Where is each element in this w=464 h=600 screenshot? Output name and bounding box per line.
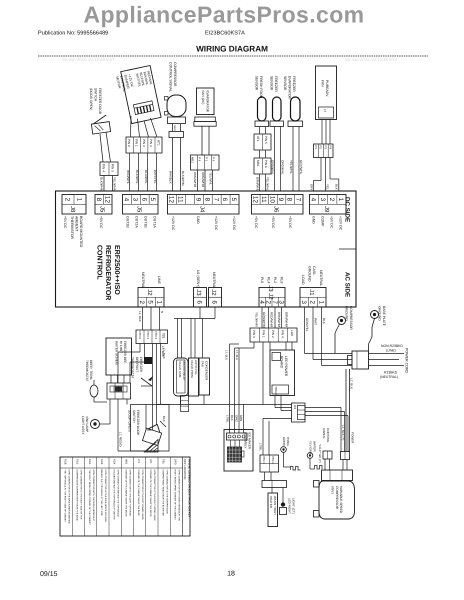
wire TB1 leg 2: [130, 344, 145, 384]
light assembly label: [81, 416, 89, 435]
svg-text:YEL: YEL: [326, 184, 330, 190]
svg-text:5: 5: [149, 198, 156, 202]
svg-text:NEUTRAL: NEUTRAL: [319, 270, 323, 286]
svg-text:PIN 4: PIN 4: [281, 330, 285, 338]
svg-text:+5V DC: +5V DC: [288, 216, 292, 229]
svg-text:MB1: MB1: [256, 160, 260, 167]
svg-text:FREEZER DOOR: FREEZER DOOR: [98, 88, 102, 115]
connector MB door switch: [100, 162, 118, 176]
svg-text:ORG/WHM: ORG/WHM: [201, 172, 205, 188]
svg-text:L7, BLK (T): L7, BLK (T): [341, 425, 345, 440]
svg-text:+12V DC: +12V DC: [171, 216, 175, 231]
svg-text:BASE PLATE: BASE PLATE: [382, 306, 386, 327]
svg-text:RG8: RG8: [63, 459, 66, 465]
svg-text:ORG/WHM: ORG/WHM: [193, 172, 197, 188]
title WIRING DIAGRAM: [196, 45, 268, 54]
svg-text:PIN 3: PIN 3: [252, 330, 256, 338]
svg-text:POWER CORD: POWER CORD: [405, 348, 409, 374]
svg-text:+5V DC: +5V DC: [254, 216, 258, 229]
defrost heater assembly box: [106, 338, 132, 375]
svg-text:AppliancePartsPros.com: AppliancePartsPros.com: [83, 2, 364, 28]
wires MB connector to J8: [100, 176, 117, 192]
wires connector to bar: [265, 472, 272, 481]
svg-text:TRIAC: TRIAC: [274, 387, 278, 396]
wires freezer evap sensor to J6: [289, 127, 303, 192]
svg-text:SIGNAL: SIGNAL: [322, 428, 326, 439]
compressor mount tabs: [314, 481, 320, 518]
svg-text:LED NIGHT: LED NIGHT: [288, 498, 292, 514]
svg-text:EVAPORATOR: EVAPORATOR: [288, 76, 292, 100]
svg-text:PIN 1: PIN 1: [262, 330, 266, 338]
svg-text:FRESH FOOD: FRESH FOOD: [259, 76, 263, 99]
svg-text:LT1: LT1: [137, 459, 140, 464]
connector J5 mid: [123, 195, 159, 215]
drain heater resistive element: [291, 467, 301, 471]
wire TB1 leg 4: [161, 344, 166, 405]
small strip connector below valves: [181, 396, 189, 412]
svg-text:THE TOP GRILLE AT THE RIGHT SI: THE TOP GRILLE AT THE RIGHT SIDE OF CABI…: [63, 470, 66, 523]
svg-text:RIGHT REAR UPPER CORNER OF THE: RIGHT REAR UPPER CORNER OF THE CABINET: [174, 470, 177, 521]
svg-text:THERMOSTAT: THERMOSTAT: [85, 360, 89, 382]
svg-text:PIN 2: PIN 2: [271, 330, 275, 338]
svg-text:FAN (DC): FAN (DC): [201, 91, 205, 105]
svg-text:SENSOR: SENSOR: [283, 76, 287, 91]
J5 mid pin labels: [126, 216, 157, 228]
door switch assembly outline: [131, 405, 170, 452]
svg-text:P4: P4: [328, 146, 332, 150]
svg-text:WHI/BLK: WHI/BLK: [169, 171, 173, 185]
svg-text:2: 2: [264, 300, 271, 304]
connector J9: [310, 195, 347, 215]
svg-text:SWITCH: SWITCH: [94, 88, 98, 102]
svg-text:6: 6: [196, 300, 203, 304]
svg-text:SENSOR: SENSOR: [270, 76, 274, 91]
svg-text:PIN 1: PIN 1: [135, 139, 139, 147]
svg-text:BRN/WHM: BRN/WHM: [285, 312, 289, 328]
svg-text:3: 3: [277, 300, 284, 304]
svg-text:CASL: CASL: [312, 266, 316, 275]
svg-text:THE RIGHT REAR UPPER CORNER OF: THE RIGHT REAR UPPER CORNER OF THE CABIN…: [88, 470, 91, 526]
J9 pin labels: [312, 216, 343, 231]
svg-text:WHT/YEL: WHT/YEL: [153, 170, 157, 184]
svg-text:L7, RED/O: L7, RED/O: [119, 432, 123, 447]
svg-text:GROUND: GROUND: [378, 306, 382, 321]
svg-text:6: 6: [140, 198, 147, 202]
svg-text:DPD: DPD: [174, 459, 177, 465]
svg-text:2 PIN CONNECTOR AT THE RIGHT S: 2 PIN CONNECTOR AT THE RIGHT SIDE OF THE: [80, 470, 83, 520]
compressor control signal label: [169, 62, 177, 92]
svg-text:BLK/WHM: BLK/WHM: [181, 171, 185, 186]
control board ERF2500 outline: [56, 191, 357, 307]
connector DPD block: [250, 328, 297, 342]
water dispenser valve: [189, 358, 199, 396]
svg-text:L7, BLK: L7, BLK: [235, 350, 239, 360]
wires air filter to DPD connector: [322, 120, 330, 145]
base plate ground label: [378, 306, 386, 327]
svg-text:TB1: TB1: [161, 459, 164, 464]
power cord plug: [348, 351, 369, 369]
svg-text:EI23BC60KS7A: EI23BC60KS7A: [205, 31, 245, 37]
dispenser connector block: [260, 455, 279, 472]
wire defrost block down: [118, 399, 160, 451]
svg-text:+12V DC: +12V DC: [214, 216, 218, 231]
svg-text:ORG/WHL: ORG/WHL: [281, 160, 285, 175]
connector J6: [251, 195, 303, 215]
connector J3 single: [194, 288, 207, 308]
svg-text:D3: D3: [293, 405, 297, 409]
svg-text:AMBIENT: AMBIENT: [74, 216, 78, 232]
svg-text:J9: J9: [323, 206, 330, 213]
svg-text:MB1: MB1: [125, 459, 128, 465]
svg-text:KEY LOCATION: KEY LOCATION: [183, 459, 187, 479]
wires DPD to J9: [310, 158, 339, 192]
wires down to dispenser connector: [259, 419, 270, 456]
svg-text:LED POWER: LED POWER: [284, 356, 288, 377]
wires pin header to module: [231, 440, 240, 447]
svg-text:Publication No: 5995566489: Publication No: 5995566489: [38, 30, 108, 37]
wires damper motor to AT1: [131, 116, 158, 137]
compressor ground label: [345, 306, 353, 330]
defrost terminal block: [107, 383, 131, 399]
wire bundle J3 quad to DPD block: [262, 307, 282, 328]
svg-text:+5V DC: +5V DC: [271, 216, 275, 229]
svg-text:BLU/WHL: BLU/WHL: [144, 170, 148, 184]
svg-text:BOARD MOUNTED: BOARD MOUNTED: [79, 216, 83, 248]
svg-text:YEL/WHL: YEL/WHL: [209, 172, 213, 186]
wires DPD to LED board: [235, 342, 293, 405]
svg-text:7: 7: [271, 300, 278, 304]
svg-text:AT1: AT1: [157, 140, 161, 146]
wires D3 to right: [305, 408, 348, 453]
svg-text:BRN/WHL: BRN/WHL: [256, 177, 260, 192]
svg-text:U2 (GEN+): U2 (GEN+): [196, 270, 200, 287]
svg-text:LT: LT: [323, 109, 327, 112]
connector AT1 damper: [126, 137, 162, 153]
svg-text:J3 J2: J3 J2: [267, 285, 274, 300]
svg-text:VALVE PRIM.: VALVE PRIM.: [190, 360, 194, 379]
wires LED board down: [275, 396, 281, 411]
svg-text:3: 3: [131, 198, 138, 202]
defrost thermostat symbol: [90, 380, 107, 402]
connector below compressor thermistor: [168, 117, 186, 124]
model number: [205, 31, 245, 37]
svg-text:THERMOSTAT: THERMOSTAT: [131, 357, 135, 379]
svg-text:COMPARTMENT AREA NEAR THE INVE: COMPARTMENT AREA NEAR THE INVERTER: [161, 470, 164, 517]
svg-text:FAN: FAN: [320, 80, 324, 87]
svg-text:RG4: RG4: [112, 459, 115, 465]
compressor ground ring terminal: [335, 317, 346, 354]
variable speed compressor body: [319, 481, 355, 519]
svg-text:P 1: P 1: [205, 157, 209, 162]
svg-text:ERF2500++ISO: ERF2500++ISO: [113, 245, 120, 295]
footer date: [40, 570, 58, 578]
svg-text:(NEUTRAL): (NEUTRAL): [380, 375, 398, 379]
svg-text:6: 6: [211, 300, 218, 304]
freezer sensor: [270, 76, 284, 127]
J4 pin labels: [171, 216, 236, 231]
svg-text:YEL/WHM: YEL/WHM: [255, 312, 259, 327]
connector J8: [62, 195, 86, 215]
svg-text:GRN: GRN: [173, 125, 176, 131]
housing ground ring: [281, 437, 291, 467]
svg-text:11: 11: [177, 196, 184, 203]
J8 pin labels: [63, 216, 83, 248]
freezer door switch upper label: [89, 88, 102, 115]
light assembly lamp: [91, 399, 111, 429]
wires AT1 to J5: [126, 153, 157, 191]
ice maker assembly box: [224, 430, 253, 472]
wires bus LED to D3: [157, 405, 292, 419]
svg-text:LT/BL: LT/BL: [226, 415, 230, 423]
svg-text:3: 3: [300, 300, 307, 304]
svg-text:PIN 1: PIN 1: [271, 457, 275, 465]
svg-text:BLK: BLK: [322, 318, 326, 325]
svg-text:8: 8: [203, 198, 210, 202]
svg-text:PIN 3: PIN 3: [154, 332, 158, 340]
svg-text:FAN: FAN: [201, 361, 205, 367]
svg-text:+5V DC: +5V DC: [330, 216, 334, 229]
svg-text:12: 12: [103, 196, 110, 204]
svg-text:J8: J8: [69, 206, 76, 213]
svg-text:P 4: P 4: [212, 157, 216, 162]
svg-text:BLK/WHL: BLK/WHL: [135, 170, 139, 184]
svg-text:NON-R23BKD: NON-R23BKD: [381, 344, 403, 348]
svg-text:AT1: AT1: [149, 459, 152, 464]
valve wire labels: [162, 348, 166, 359]
svg-text:CORNER OF THE CABINET NEAR THE: CORNER OF THE CABINET NEAR THE DOOR: [149, 470, 152, 517]
svg-text:(DOOR OPEN): (DOOR OPEN): [128, 410, 132, 432]
svg-text:PIN 1: PIN 1: [146, 332, 150, 340]
svg-text:(LINE): (LINE): [386, 349, 396, 353]
svg-text:RED/WHL: RED/WHL: [126, 170, 130, 185]
svg-text:PUREADV.: PUREADV.: [325, 80, 329, 97]
svg-text:L7, BLK: L7, BLK: [350, 378, 354, 390]
compressor control connector: [322, 428, 332, 459]
label DC SIDE: [344, 197, 351, 222]
wires J2 to TB1: [138, 307, 164, 330]
svg-text:+5V DC: +5V DC: [99, 216, 103, 229]
svg-text:PL9: PL9: [260, 277, 264, 283]
svg-text:NEUTRAL: NEUTRAL: [212, 272, 216, 288]
svg-text:6 PIN CONNECTOR IN THE MAIN HA: 6 PIN CONNECTOR IN THE MAIN HARNESS BEHI…: [67, 470, 70, 524]
connector J3 J2 quad: [258, 285, 285, 307]
svg-text:RL8: RL8: [280, 277, 284, 283]
svg-text:18: 18: [227, 571, 235, 578]
wire TB1 to defrost: [118, 344, 140, 384]
svg-text:3: 3: [319, 198, 326, 202]
svg-text:+12V DC: +12V DC: [232, 216, 236, 231]
svg-text:1: 1: [337, 198, 344, 202]
svg-text:BRN: BRN: [239, 415, 243, 421]
fresh food sensor connectors: [254, 134, 271, 174]
footer page number: [227, 571, 235, 578]
svg-text:9: 9: [194, 198, 201, 202]
svg-text:OUT2A: OUT2A: [135, 216, 139, 228]
svg-text:J3: J3: [195, 289, 202, 296]
evaporator fan collars: [194, 117, 216, 126]
svg-text:EVAPORATOR: EVAPORATOR: [206, 91, 210, 113]
svg-text:VALVE ASM: VALVE ASM: [178, 361, 182, 378]
wires J1 to power cord: [305, 307, 353, 366]
svg-text:2: 2: [309, 300, 316, 304]
wires into ice maker: [230, 348, 244, 433]
svg-text:RL4: RL4: [267, 277, 271, 283]
compressor power connector: [341, 432, 355, 460]
svg-text:6: 6: [221, 198, 228, 202]
svg-text:HOUSING BEHIND THE TOP GRILLE: HOUSING BEHIND THE TOP GRILLE AT CENTER: [112, 470, 115, 520]
thermal fuse symbol: [141, 357, 153, 386]
connector MB1 evap fan: [191, 155, 220, 170]
label AC SIDE: [344, 272, 351, 297]
watermark left: [62, 57, 115, 62]
svg-text:LOAD: LOAD: [301, 275, 305, 285]
svg-text:4: 4: [123, 198, 130, 202]
svg-text:1: 1: [317, 300, 324, 304]
valve housing ground 2: [307, 441, 316, 469]
svg-text:POWER: POWER: [351, 432, 355, 444]
svg-text:COMPRESSOR: COMPRESSOR: [349, 306, 353, 330]
drain trough heater: [268, 493, 278, 527]
svg-text:LT/BL: LT/BL: [259, 443, 263, 451]
svg-text:09/15: 09/15: [40, 570, 58, 578]
svg-text:RG2: RG2: [76, 459, 79, 465]
compressor signal collar: [169, 132, 184, 138]
svg-text:10: 10: [269, 196, 276, 204]
connector DPD air filter: [314, 144, 334, 158]
svg-text:PIN 6: PIN 6: [264, 160, 268, 168]
svg-text:L1, BLK: L1, BLK: [138, 311, 142, 322]
svg-text:12: 12: [251, 196, 258, 204]
svg-text:P2: P2: [319, 146, 323, 150]
svg-text:P1: P1: [314, 146, 318, 150]
water valve resistive element: [315, 444, 323, 469]
svg-text:MB1: MB1: [191, 157, 195, 163]
svg-text:05-Jan-2015 10:12:48 EST: 05-Jan-2015 10:12:48 EST: [345, 57, 398, 62]
wires compressor signal to J4: [169, 124, 186, 192]
wires freezer sensor to J6: [271, 127, 285, 192]
svg-text:GRN/WHM: GRN/WHM: [262, 312, 266, 328]
DPD block wire labels: [255, 312, 289, 328]
svg-text:AT1: AT1: [256, 136, 260, 142]
svg-text:J5: J5: [99, 206, 106, 213]
svg-text:GND: GND: [312, 216, 316, 224]
junction block D3: [292, 403, 306, 422]
svg-text:COMPRESSOR: COMPRESSOR: [173, 62, 177, 87]
compressor terminal bar: [322, 470, 353, 481]
freezer evaporator sensor: [283, 76, 302, 127]
svg-text:5: 5: [147, 300, 154, 304]
svg-text:J5: J5: [135, 206, 142, 213]
svg-text:PIN 2: PIN 2: [127, 139, 131, 147]
svg-text:CORNER OF THE CABINET NEAR THE: CORNER OF THE CABINET NEAR THE BASE: [137, 470, 140, 517]
wires fresh food sensor to J6: [256, 127, 270, 192]
J2 wire labels: [141, 272, 161, 288]
publication number: [38, 30, 108, 37]
svg-text:GRY/WHL: GRY/WHL: [299, 160, 303, 175]
svg-text:GRND: GRND: [282, 437, 286, 447]
svg-text:PIN 3: PIN 3: [142, 139, 146, 147]
svg-text:ORG: ORG: [235, 415, 239, 423]
svg-text:PIN 5: PIN 5: [111, 164, 115, 172]
svg-text:PIN 4: PIN 4: [102, 164, 106, 172]
svg-text:BLK: BLK: [335, 184, 339, 190]
svg-text:LIGHT ASSY: LIGHT ASSY: [81, 416, 85, 435]
svg-text:GND: GND: [196, 216, 200, 224]
header logo AppliancePartsPros.com: [83, 2, 364, 28]
svg-text:GRN/WHL: GRN/WHL: [271, 160, 275, 175]
svg-text:CONTROL SIGNAL: CONTROL SIGNAL: [169, 62, 173, 92]
damper control motor: [114, 65, 161, 124]
power cord lines: [369, 354, 405, 366]
power cord label: [405, 348, 409, 374]
ice maker pin header: [227, 433, 248, 440]
freezer defrost thermostat label: [131, 357, 143, 379]
connector J4: [168, 195, 240, 215]
door switch wires: [146, 405, 166, 452]
water inlet valve: [174, 358, 189, 396]
svg-text:PIN 3: PIN 3: [262, 457, 266, 465]
svg-text:(DOOR OPEN): (DOOR OPEN): [89, 88, 93, 110]
power cord neutral label: [380, 371, 398, 380]
svg-text:12: 12: [168, 196, 175, 204]
svg-text:N: N: [160, 311, 164, 313]
svg-text:J6: J6: [272, 206, 279, 213]
svg-text:OUT1A: OUT1A: [153, 216, 157, 228]
svg-text:BEHIND THE TOP GRILLE AT THE L: BEHIND THE TOP GRILLE AT THE LEFT SIDE: [100, 470, 103, 517]
header rule: [38, 55, 428, 57]
LED power board: [270, 350, 295, 396]
svg-text:3 PIN CONNECTOR AT THE LEFT TO: 3 PIN CONNECTOR AT THE LEFT TOP HINGE: [129, 470, 132, 517]
door switch hatch triangle: [145, 440, 159, 453]
svg-text:WHT: WHT: [314, 318, 318, 325]
svg-text:WATER SCHEM.: WATER SCHEM.: [115, 341, 119, 366]
svg-text:4: 4: [258, 300, 265, 304]
svg-text:HEATER: HEATER: [269, 496, 273, 509]
wires evap fan to MB1: [202, 126, 209, 155]
connector TB1: [136, 330, 168, 344]
svg-text:P3: P3: [324, 146, 328, 150]
svg-text:5 PIN CONNECTOR IN THE MAIN SP: 5 PIN CONNECTOR IN THE MAIN SPACE HOUSIN…: [104, 470, 107, 523]
watermark right: [345, 57, 398, 62]
svg-text:WIRING DIAGRAM: WIRING DIAGRAM: [196, 45, 268, 54]
svg-text:PIN 2: PIN 2: [138, 332, 142, 340]
control board label: [95, 245, 120, 300]
J3 J2 single wire labels: [196, 270, 216, 288]
svg-text:BOARD: BOARD: [279, 356, 283, 369]
connector J5 left: [95, 195, 112, 215]
svg-text:2: 2: [138, 300, 145, 304]
svg-text:BRN/WHM: BRN/WHM: [277, 312, 281, 328]
svg-text:+12V DC: +12V DC: [339, 216, 343, 231]
wires switch to MB connector: [100, 132, 111, 162]
svg-text:NEUTRAL: NEUTRAL: [141, 272, 145, 288]
svg-text:GROUND: GROUND: [307, 266, 311, 282]
J6 pin labels: [254, 216, 292, 229]
wire TB1 leg 3: [147, 344, 157, 431]
svg-text:LG8: LG8: [290, 330, 294, 336]
svg-text:GROUND: GROUND: [345, 306, 349, 321]
svg-text:9 PIN CONNECTOR WITH THE MAIN: 9 PIN CONNECTOR WITH THE MAIN HARNESS AT: [92, 470, 95, 522]
svg-text:YEL/WHL: YEL/WHL: [266, 177, 270, 191]
svg-text:OUT1B: OUT1B: [144, 216, 148, 228]
svg-text:8: 8: [286, 198, 293, 202]
svg-text:J1: J1: [308, 289, 315, 296]
wires valves down: [181, 395, 205, 405]
svg-text:BLK/WHM: BLK/WHM: [100, 177, 104, 192]
wire defrost block right: [126, 399, 128, 405]
svg-text:OUT2B: OUT2B: [126, 216, 130, 228]
freezer door switch lower labels: [128, 410, 140, 436]
